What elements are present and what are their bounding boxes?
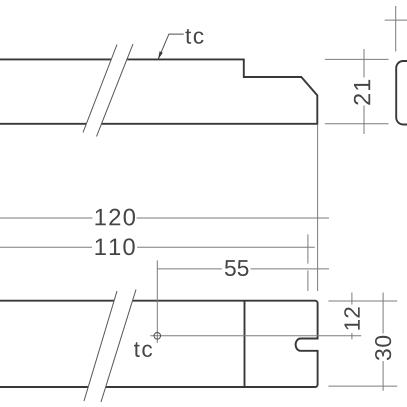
width dimension line top right (cut off) bbox=[385, 19, 407, 21]
dimension 110 bbox=[0, 246, 315, 248]
board joint line bbox=[244, 301, 246, 387]
top board elevation outline bbox=[0, 59, 317, 123]
dimension 30 bbox=[382, 293, 384, 391]
extension line lower board top edge bbox=[328, 300, 397, 302]
extension line x=308 bbox=[307, 234, 309, 291]
extension line lower board bottom edge bbox=[328, 385, 397, 387]
cross-section profile right (cut off at edge) bbox=[396, 61, 407, 125]
extension line x=157.3 (55 left / tc) bbox=[156, 260, 158, 343]
break lines lower board bbox=[84, 290, 136, 403]
extension line from board right end bbox=[317, 125, 319, 291]
tc datum line bbox=[150, 335, 361, 337]
dimension 12 bbox=[351, 293, 353, 340]
label tc top bbox=[185, 29, 203, 44]
dimension 55 bbox=[157, 268, 329, 270]
dimension 21 bbox=[325, 49, 389, 134]
extension line profile left edge bbox=[395, 6, 397, 52]
leader arrow tc top bbox=[158, 34, 184, 60]
label tc bottom bbox=[134, 342, 152, 357]
lower board plan outline bbox=[0, 301, 318, 387]
tc datum circle bbox=[154, 333, 161, 340]
break lines top board bbox=[83, 44, 133, 137]
dimension 120 bbox=[0, 217, 329, 219]
